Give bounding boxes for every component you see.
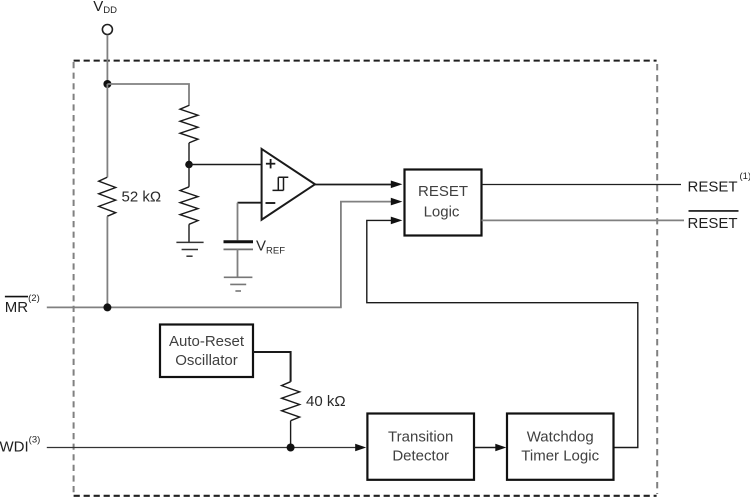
label RESET bar: [688, 211, 739, 232]
wire RESETB output: [482, 219, 685, 221]
op-amp comparator U1: [262, 149, 315, 220]
node VDD junction: [103, 80, 111, 88]
Watchdog Timer Logic box: [507, 414, 614, 480]
arrow into Watchdog Timer Logic: [495, 444, 506, 451]
svg-text:RESET: RESET: [688, 215, 738, 232]
label WDI (3): [0, 435, 40, 456]
arrow into RESET Logic input 3: [391, 217, 403, 225]
ground GND1: [176, 242, 203, 256]
arrow into RESET Logic input 2: [391, 198, 403, 206]
node MR junction: [103, 303, 111, 311]
label 40 kOhm: [306, 393, 346, 410]
IC boundary dashed box right: [656, 64, 658, 494]
arrow into Transition Detector: [355, 444, 366, 451]
IC boundary dashed box top: [74, 60, 657, 62]
svg-text:Oscillator: Oscillator: [175, 352, 238, 369]
hysteresis symbol: [273, 177, 289, 190]
svg-text:40 kΩ: 40 kΩ: [306, 393, 346, 410]
svg-text:Transition: Transition: [388, 429, 453, 446]
wire WDI net: [47, 447, 356, 449]
resistor R2: [180, 105, 198, 164]
capacitor VREF top plate: [224, 240, 254, 243]
Transition Detector box: [367, 414, 474, 480]
VDD terminal circle: [102, 25, 112, 35]
wire divider to comparator +: [189, 164, 262, 166]
wire VREF to ground: [237, 249, 239, 277]
resistor R1 52k upper lead: [106, 84, 108, 177]
svg-text:Timer Logic: Timer Logic: [521, 448, 599, 465]
svg-text:Logic: Logic: [424, 204, 460, 221]
svg-text:Watchdog: Watchdog: [527, 429, 594, 446]
wire minus to VREF: [237, 203, 239, 241]
label MR bar (2): [5, 293, 40, 316]
node WDI R4 junction: [287, 444, 295, 452]
IC boundary dashed box left: [73, 62, 75, 493]
svg-text:Detector: Detector: [392, 448, 449, 465]
IC boundary dashed box bottom: [74, 495, 657, 497]
wire oscillator to R4: [253, 352, 291, 382]
ground GND2: [224, 277, 253, 291]
RESET Logic box U2: [405, 170, 482, 236]
wire MR net: [47, 202, 395, 308]
wire VDD to R2 top: [107, 84, 189, 106]
wire VDD drop: [106, 35, 108, 84]
label RESET(1): [688, 171, 750, 196]
wire detector to watchdog: [474, 447, 496, 449]
resistor R1 52k: [99, 177, 116, 216]
svg-text:Auto-Reset: Auto-Reset: [169, 333, 245, 350]
svg-text:RESET: RESET: [418, 183, 468, 200]
wire watchdog feedback: [367, 220, 638, 447]
label 52 kOhm: [122, 188, 162, 205]
Auto-Reset Oscillator box: [160, 325, 253, 378]
resistor R1 52k lower lead: [106, 216, 108, 307]
wire RESET output: [482, 184, 682, 186]
arrow into RESET Logic input 1: [391, 181, 403, 189]
label VREF: [256, 237, 285, 256]
resistor R4 40k: [282, 382, 300, 448]
wire comparator output: [315, 184, 396, 186]
VDD label: [93, 0, 117, 16]
node divider junction: [185, 161, 193, 169]
wire comparator minus stub: [238, 202, 263, 204]
svg-text:52 kΩ: 52 kΩ: [122, 188, 162, 205]
resistor R3: [180, 165, 198, 243]
capacitor VREF bottom plate: [224, 248, 254, 250]
